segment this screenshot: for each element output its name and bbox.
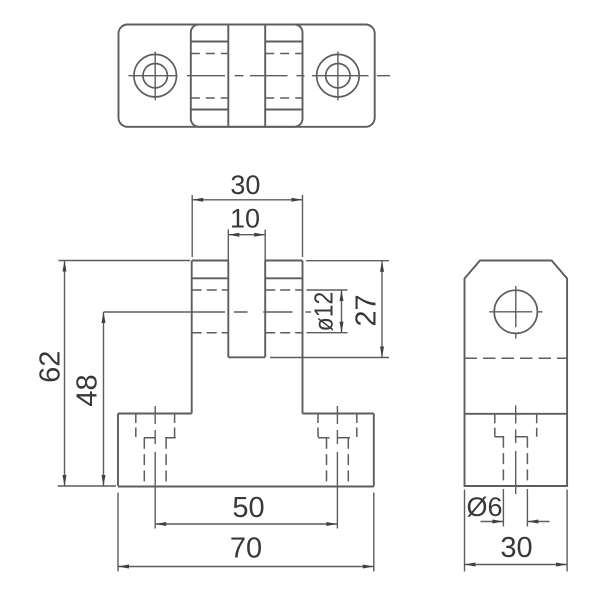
front view left hole hidden walls xyxy=(144,438,166,486)
top view left counterbore circle xyxy=(134,54,177,97)
front view left hole center line xyxy=(154,406,156,529)
dimension phi12 line xyxy=(341,290,343,333)
dimension 27 line xyxy=(381,261,383,358)
top view chamfer edge upper xyxy=(191,41,303,43)
dimension 62 extension bottom xyxy=(58,485,116,487)
side view counterbore hidden walls xyxy=(495,414,537,437)
dimension 70 arrows xyxy=(118,565,374,569)
side view base top edge xyxy=(465,413,568,415)
top view plate outline xyxy=(119,25,375,127)
top view slot left edge xyxy=(227,25,229,127)
dimension 48 arrows xyxy=(102,312,106,486)
svg-text:10: 10 xyxy=(230,204,260,234)
svg-text:Ø6: Ø6 xyxy=(466,492,502,522)
top view horizontal center line xyxy=(129,75,391,77)
dimension phi12 arrows xyxy=(340,290,344,333)
top view left hole vertical center line xyxy=(154,52,156,101)
top view left hole circle xyxy=(143,63,167,87)
top view right hole circle xyxy=(326,63,350,87)
dimension 27 extension top xyxy=(306,260,389,262)
front view slot left edge xyxy=(227,261,229,358)
svg-text:50: 50 xyxy=(232,492,264,524)
top view right counterbore circle xyxy=(317,54,360,97)
dimension 10 arrows xyxy=(228,233,265,237)
svg-text:30: 30 xyxy=(500,532,532,564)
side view slot bottom hidden line xyxy=(465,357,568,359)
side view outline xyxy=(465,261,568,487)
side view hole hidden walls xyxy=(503,437,527,486)
front view hole hidden bottom line xyxy=(192,332,303,334)
front view column left edge xyxy=(191,261,193,414)
dimension phi6 extension lines xyxy=(503,489,527,527)
svg-text:30: 30 xyxy=(230,170,260,200)
svg-text:ø12: ø12 xyxy=(310,292,339,331)
front view slot right edge xyxy=(264,261,266,358)
dimension 10 extension lines xyxy=(228,230,265,261)
front view right hole center line xyxy=(336,406,338,529)
dimension 27 extension bottom xyxy=(270,357,389,359)
dimension 10 line xyxy=(228,234,265,236)
front view base right edge xyxy=(373,414,375,487)
dimension 70 extension lines xyxy=(118,493,374,572)
dimension 50 arrows xyxy=(155,522,337,526)
front view left counterbore hidden bottom xyxy=(144,437,176,439)
side view hole center line xyxy=(515,406,517,495)
side view hole circle xyxy=(494,290,537,333)
dimension 27 arrows xyxy=(380,261,384,358)
svg-text:70: 70 xyxy=(230,533,262,565)
dimension phi12 extension lines xyxy=(307,290,348,333)
top view column block outline xyxy=(191,25,303,127)
front view right hole hidden walls xyxy=(327,438,349,486)
side view hole horizontal center line xyxy=(489,311,542,313)
dimension 30 arrows xyxy=(192,198,302,202)
dimension 30 side line xyxy=(465,564,568,566)
front view right counterbore hidden bottom xyxy=(318,437,350,439)
front view hole center line xyxy=(104,311,312,313)
svg-text:48: 48 xyxy=(72,374,104,406)
front view slot bottom edge xyxy=(228,356,265,358)
top view hidden hole line lower xyxy=(191,97,303,99)
dimension 50 line xyxy=(155,523,337,525)
side view hole vertical center line xyxy=(515,286,517,339)
dimension 30 side arrows xyxy=(465,563,568,567)
dimension 30 extension lines xyxy=(192,195,302,257)
front view chamfer edge xyxy=(192,277,303,279)
front view hole hidden top line xyxy=(192,289,303,291)
top view slot right edge xyxy=(264,25,266,127)
dimension 62 extension top xyxy=(59,260,191,262)
front view base bottom edge xyxy=(118,486,374,488)
dimension 48 line xyxy=(103,312,105,486)
front view base top edge xyxy=(118,413,374,415)
dimension 62 line xyxy=(64,261,66,487)
front view base left edge xyxy=(117,414,119,487)
dimension 70 line xyxy=(118,566,374,568)
top view right hole vertical center line xyxy=(337,52,339,101)
front view column top edge xyxy=(192,260,303,262)
dimension 30 line xyxy=(192,199,302,201)
top view hidden hole line upper xyxy=(191,53,303,55)
dimension 62 arrows xyxy=(63,261,67,487)
front view right counterbore hidden walls xyxy=(318,414,357,438)
svg-text:27: 27 xyxy=(351,294,383,326)
top view chamfer edge lower xyxy=(191,109,303,111)
front view left counterbore hidden walls xyxy=(136,414,175,438)
dimension phi6 arrow leaders xyxy=(481,521,550,523)
side view counterbore hidden bottom xyxy=(495,436,528,438)
front view column right edge xyxy=(302,261,304,414)
dimension phi6 arrows xyxy=(492,520,538,524)
dimension 30 side extension lines xyxy=(465,490,568,572)
svg-text:62: 62 xyxy=(34,351,66,383)
